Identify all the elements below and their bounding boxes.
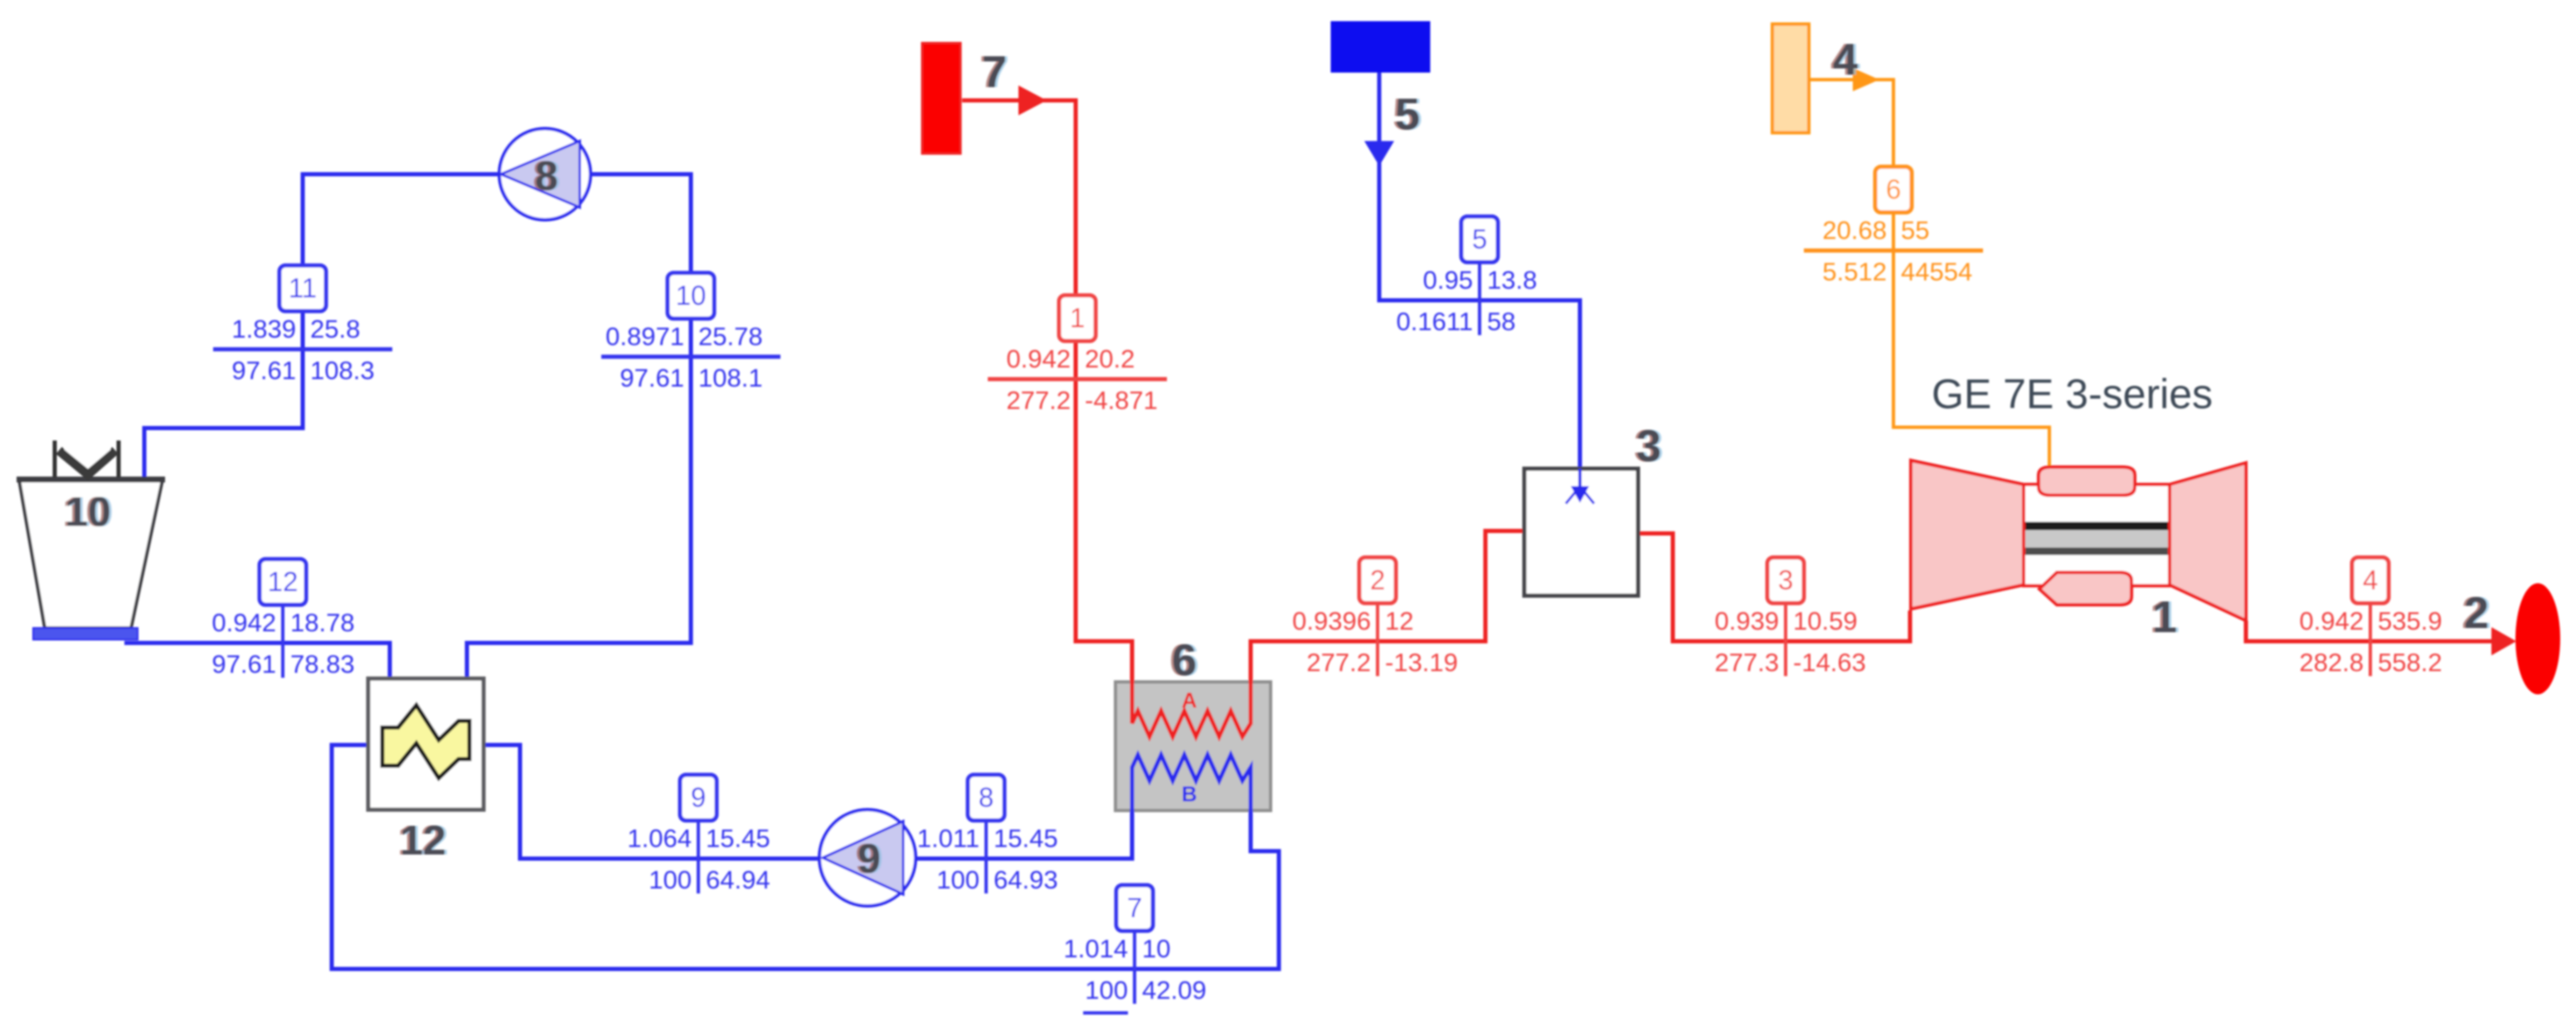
svg-text:10: 10 xyxy=(676,280,707,311)
svg-text:25.8: 25.8 xyxy=(310,314,360,343)
svg-text:10.59: 10.59 xyxy=(1793,606,1858,635)
svg-text:64.93: 64.93 xyxy=(994,865,1058,894)
svg-text:277.2: 277.2 xyxy=(1006,386,1071,415)
svg-text:42.09: 42.09 xyxy=(1142,976,1207,1005)
svg-text:10: 10 xyxy=(65,489,111,535)
svg-text:0.8971: 0.8971 xyxy=(605,322,684,351)
svg-text:18.78: 18.78 xyxy=(290,608,355,637)
svg-text:7: 7 xyxy=(1127,893,1142,923)
svg-text:15.45: 15.45 xyxy=(706,824,770,853)
svg-text:1.014: 1.014 xyxy=(1063,934,1128,963)
svg-text:10: 10 xyxy=(1142,934,1170,963)
svg-text:A: A xyxy=(1182,688,1198,713)
svg-text:GE 7E 3-series: GE 7E 3-series xyxy=(1932,371,2213,417)
svg-text:0.942: 0.942 xyxy=(211,608,276,637)
svg-text:6: 6 xyxy=(1172,635,1197,685)
svg-text:277.3: 277.3 xyxy=(1714,648,1779,677)
svg-text:282.8: 282.8 xyxy=(2299,648,2364,677)
svg-text:6: 6 xyxy=(1886,174,1901,205)
svg-text:9: 9 xyxy=(858,835,881,882)
svg-text:1.839: 1.839 xyxy=(231,314,296,343)
svg-text:2: 2 xyxy=(2464,588,2489,638)
svg-text:5: 5 xyxy=(1472,224,1487,255)
svg-text:100: 100 xyxy=(1085,976,1128,1005)
svg-text:2: 2 xyxy=(1370,565,1385,596)
svg-text:0.1611: 0.1611 xyxy=(1396,307,1473,336)
svg-text:9: 9 xyxy=(691,782,706,813)
svg-text:64.94: 64.94 xyxy=(706,865,770,894)
svg-text:20.68: 20.68 xyxy=(1822,216,1887,245)
svg-text:4: 4 xyxy=(2363,565,2378,596)
svg-text:12: 12 xyxy=(400,817,446,864)
svg-text:5: 5 xyxy=(1395,90,1420,139)
svg-text:97.61: 97.61 xyxy=(620,363,684,392)
svg-text:3: 3 xyxy=(1778,565,1793,596)
svg-text:44554: 44554 xyxy=(1901,257,1972,286)
svg-text:97.61: 97.61 xyxy=(231,356,296,385)
svg-text:58: 58 xyxy=(1487,307,1515,336)
svg-text:0.942: 0.942 xyxy=(1006,344,1071,373)
svg-text:12: 12 xyxy=(1385,606,1413,635)
svg-text:13.8: 13.8 xyxy=(1487,265,1537,295)
svg-text:B: B xyxy=(1182,781,1198,806)
svg-text:535.9: 535.9 xyxy=(2378,606,2442,635)
svg-text:-13.19: -13.19 xyxy=(1385,648,1458,677)
svg-text:100: 100 xyxy=(649,865,692,894)
svg-text:1: 1 xyxy=(1070,303,1085,333)
svg-text:78.83: 78.83 xyxy=(290,650,355,679)
svg-text:1.011: 1.011 xyxy=(917,824,979,853)
svg-text:100: 100 xyxy=(936,865,979,894)
svg-text:25.78: 25.78 xyxy=(698,322,763,351)
svg-text:0.942: 0.942 xyxy=(2299,606,2364,635)
svg-text:97.61: 97.61 xyxy=(211,650,276,679)
svg-text:4: 4 xyxy=(1833,35,1858,85)
svg-text:55: 55 xyxy=(1901,216,1929,245)
svg-text:558.2: 558.2 xyxy=(2378,648,2442,677)
svg-text:12: 12 xyxy=(268,567,299,597)
svg-text:0.9396: 0.9396 xyxy=(1292,606,1371,635)
svg-text:1: 1 xyxy=(2152,592,2177,642)
svg-text:15.45: 15.45 xyxy=(994,824,1058,853)
svg-text:5.512: 5.512 xyxy=(1822,257,1887,286)
svg-text:277.2: 277.2 xyxy=(1306,648,1371,677)
svg-text:1.064: 1.064 xyxy=(627,824,692,853)
svg-text:8: 8 xyxy=(979,782,994,813)
svg-text:0.95: 0.95 xyxy=(1423,265,1473,295)
svg-text:8: 8 xyxy=(535,153,558,199)
svg-text:-4.871: -4.871 xyxy=(1085,386,1158,415)
svg-text:3: 3 xyxy=(1636,421,1661,471)
svg-text:20.2: 20.2 xyxy=(1085,344,1135,373)
svg-text:0.939: 0.939 xyxy=(1714,606,1779,635)
svg-text:108.1: 108.1 xyxy=(698,363,763,392)
svg-text:7: 7 xyxy=(982,47,1007,97)
svg-text:-14.63: -14.63 xyxy=(1793,648,1866,677)
svg-text:11: 11 xyxy=(289,273,317,304)
svg-text:108.3: 108.3 xyxy=(310,356,375,385)
